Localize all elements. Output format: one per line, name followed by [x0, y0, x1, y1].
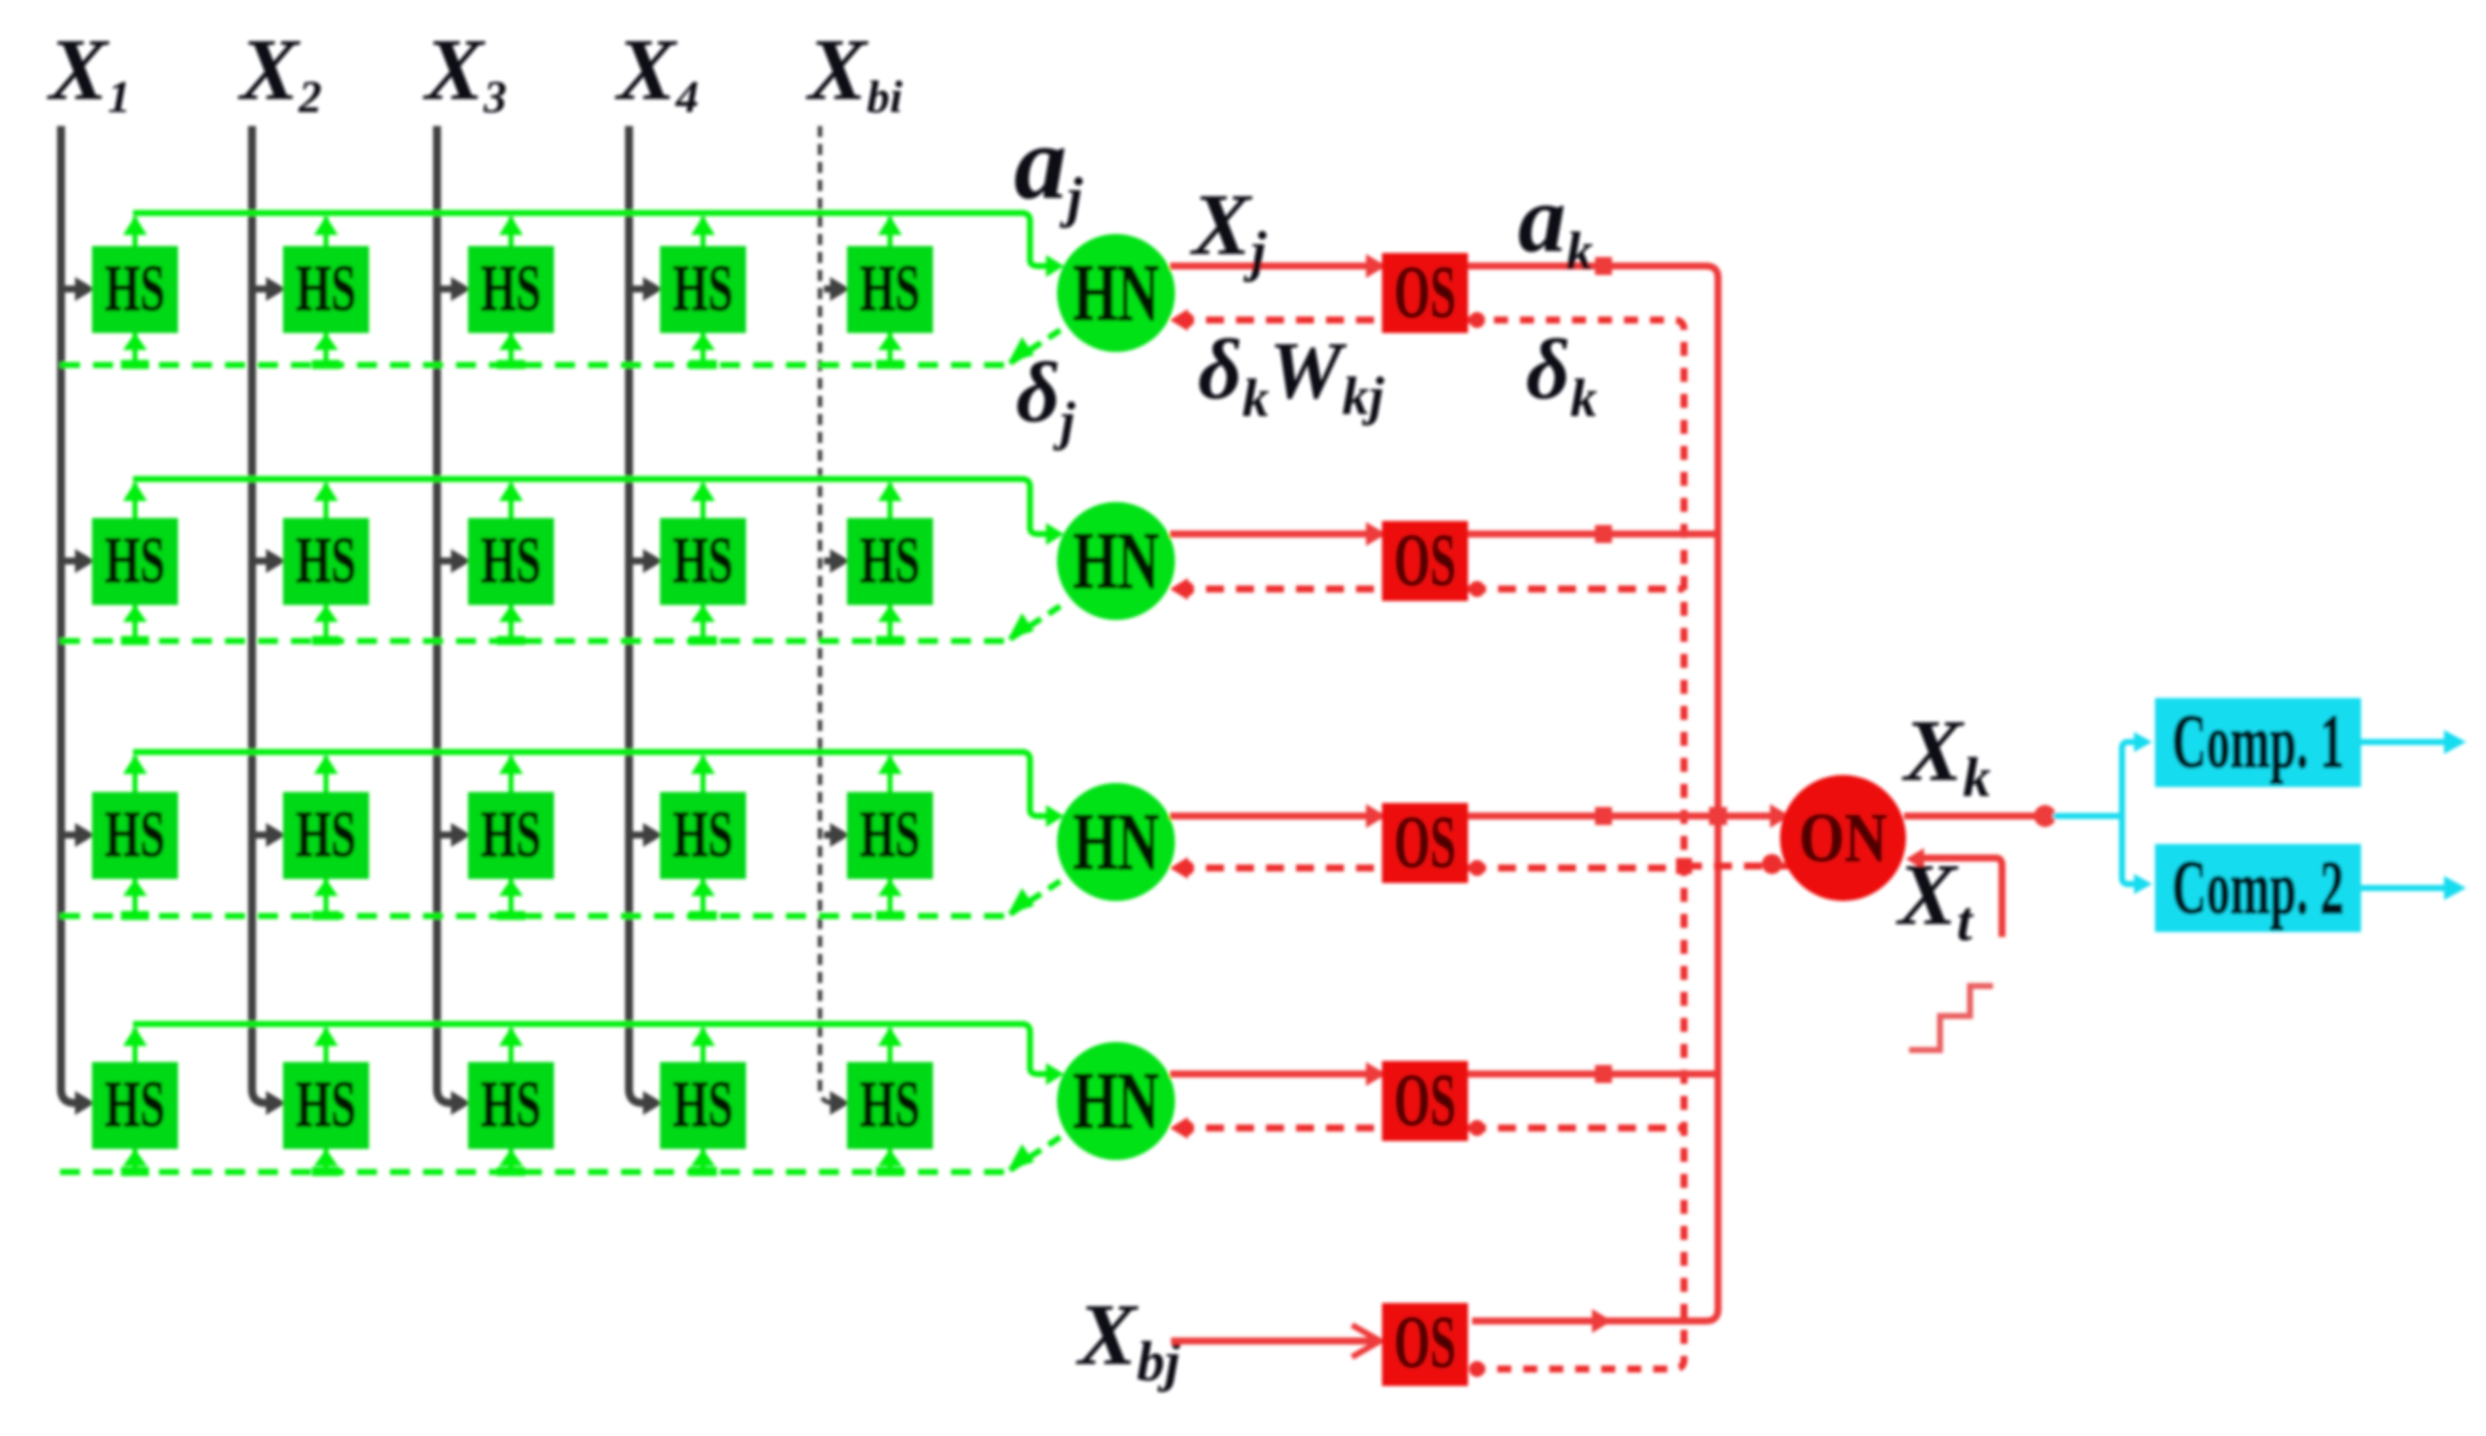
HS box row4 col2 — [283, 1062, 369, 1149]
svg-text:HS: HS — [105, 1068, 165, 1141]
red arrow into OS row4 — [1366, 1062, 1386, 1086]
wire red solid HN row2 to OS — [1170, 531, 1718, 538]
HS box row4 col3 — [468, 1062, 554, 1149]
Comp.2 box — [2155, 844, 2361, 932]
green up-arrow HS row1 col4 to a-line — [701, 217, 706, 248]
green up-arrow from dashed into HS row3 col2 — [324, 877, 329, 916]
svg-text:HS: HS — [860, 252, 920, 325]
green up-arrow from dashed into HS row3 col1 — [133, 877, 138, 916]
green arrow into HN row3 — [1046, 805, 1064, 827]
red arrow into OS row3 — [1366, 804, 1386, 828]
svg-text:ON: ON — [1799, 800, 1887, 877]
op-amp HN neuron row3 — [1057, 783, 1175, 901]
OS box row4 — [1382, 1061, 1468, 1141]
black arrow from X2 into HS row3 col2 — [256, 832, 269, 839]
wire red dashed OS row2 back to HN — [1176, 586, 1382, 593]
wire a_j collect line row3 — [133, 752, 1046, 816]
wire delta_j dashed feedback line row4 — [60, 1169, 1006, 1175]
svg-text:HS: HS — [481, 1068, 541, 1141]
black arrow from X1 into HS row2 col1 — [65, 558, 78, 565]
OS box row3 — [1382, 803, 1468, 883]
green arrow onto dashed line row1 — [1008, 337, 1034, 363]
svg-text:HS: HS — [673, 798, 733, 871]
green up-arrow from dashed into HS row4 col4 — [701, 1147, 706, 1172]
green up-arrow HS row4 col5 to a-line — [888, 1028, 893, 1064]
op-amp HN neuron row2 — [1057, 502, 1175, 620]
wire X_t input elbow into ON — [1916, 858, 2002, 937]
green up-arrow from dashed into HS row4 col1 — [133, 1147, 138, 1172]
black arrow from X2 into HS row2 col2 — [256, 558, 269, 565]
svg-text:Comp. 2: Comp. 2 — [2172, 846, 2344, 930]
green up-arrow from dashed into HS row2 col3 — [509, 603, 514, 641]
red arrow into OS row2 — [1366, 522, 1386, 546]
wire Comp.1 output — [2361, 739, 2448, 745]
green up-arrow HS row1 col1 to a-line — [133, 217, 138, 248]
green dashed stub from HN row3 — [1010, 880, 1062, 914]
green up-arrow HS row2 col4 to a-line — [701, 483, 706, 520]
green up-arrow HS row2 col1 to a-line — [133, 483, 138, 520]
svg-text:HS: HS — [105, 524, 165, 597]
op-amp HN neuron row1 — [1057, 234, 1175, 352]
svg-text:HS: HS — [860, 524, 920, 597]
black arrow from X3 into HS row2 col3 — [441, 558, 454, 565]
wire a_j collect line row4 — [133, 1024, 1046, 1074]
svg-text:OS: OS — [1394, 520, 1456, 602]
svg-text:HS: HS — [296, 798, 356, 871]
black arrow into HS row4 col3 — [451, 1091, 471, 1115]
OS box row5 — [1382, 1303, 1468, 1386]
green up-arrow from dashed into HS row1 col2 — [324, 331, 329, 365]
HS box row2 col1 — [92, 518, 178, 605]
HS box row1 col1 — [92, 246, 178, 333]
HS box row3 col3 — [468, 792, 554, 879]
wire input line X2 vertical — [252, 126, 268, 1103]
wire input line X1 vertical — [61, 126, 77, 1103]
svg-text:HN: HN — [1073, 796, 1159, 887]
svg-text:OS: OS — [1394, 1302, 1456, 1384]
green up-arrow from dashed into HS row2 col5 — [888, 603, 893, 641]
green up-arrow HS row2 col2 to a-line — [324, 483, 329, 520]
svg-text:HS: HS — [481, 524, 541, 597]
black arrow into HS row4 col1 — [75, 1091, 95, 1115]
wire red dashed OS row4 to dashed bus — [1468, 1125, 1684, 1132]
svg-text:HS: HS — [105, 252, 165, 325]
red junction marker row2 — [1595, 525, 1612, 543]
svg-text:OS: OS — [1394, 252, 1456, 334]
OS box row1 — [1382, 253, 1468, 333]
wire red dashed OS row3 back to HN — [1176, 865, 1382, 872]
svg-text:HN: HN — [1073, 515, 1159, 606]
green up-arrow from dashed into HS row2 col1 — [133, 603, 138, 641]
svg-text:HS: HS — [673, 524, 733, 597]
green up-arrow HS row3 col2 to a-line — [324, 756, 329, 794]
svg-text:HS: HS — [481, 252, 541, 325]
green up-arrow HS row2 col5 to a-line — [888, 483, 893, 520]
black arrow from X2 into HS row1 col2 — [256, 286, 269, 293]
wire input line Xbi vertical — [820, 126, 836, 1103]
wire solid bus to ON — [1718, 813, 1786, 820]
green up-arrow from dashed into HS row2 col4 — [701, 603, 706, 641]
svg-text:OS: OS — [1394, 802, 1456, 884]
green up-arrow HS row4 col2 to a-line — [324, 1028, 329, 1064]
op-amp HN neuron row4 — [1057, 1042, 1175, 1160]
HS box row4 col5 — [847, 1062, 933, 1149]
wire cyan from X_k node to splitter — [2053, 813, 2122, 819]
step function symbol — [1909, 986, 1993, 1050]
neuron ON output node — [1780, 775, 1906, 901]
green up-arrow from dashed into HS row4 col5 — [888, 1147, 893, 1172]
green arrow into HN row4 — [1046, 1063, 1064, 1085]
wire red dashed OS row1 back to HN — [1176, 317, 1382, 324]
wire input line X3 vertical — [437, 126, 453, 1103]
HS box row2 col3 — [468, 518, 554, 605]
svg-text:HS: HS — [673, 1068, 733, 1141]
wire red dashed OS row3 to dashed bus — [1468, 865, 1684, 872]
HS box row2 col2 — [283, 518, 369, 605]
green up-arrow from dashed into HS row1 col4 — [701, 331, 706, 365]
green up-arrow from dashed into HS row4 col3 — [509, 1147, 514, 1172]
green up-arrow HS row1 col2 to a-line — [324, 217, 329, 248]
black arrow from X3 into HS row1 col3 — [441, 286, 454, 293]
green up-arrow from dashed into HS row1 col1 — [133, 331, 138, 365]
black arrow from X4 into HS row3 col4 — [633, 832, 646, 839]
wire dashed delta_k from ON to dashed bus — [1684, 863, 1788, 870]
HS box row4 col1 — [92, 1062, 178, 1149]
HS box row2 col4 — [660, 518, 746, 605]
green up-arrow from dashed into HS row3 col4 — [701, 877, 706, 916]
wire red solid HN row4 to OS — [1170, 1071, 1718, 1078]
green arrow onto dashed line row3 — [1008, 888, 1034, 914]
svg-text:HS: HS — [860, 798, 920, 871]
svg-text:HS: HS — [296, 1068, 356, 1141]
svg-text:HS: HS — [481, 798, 541, 871]
green up-arrow HS row4 col4 to a-line — [701, 1028, 706, 1064]
HS box row1 col4 — [660, 246, 746, 333]
HS box row3 col4 — [660, 792, 746, 879]
red junction marker row4 — [1595, 1065, 1612, 1083]
red junction marker row1 — [1595, 257, 1612, 275]
black arrow into HS row4 col2 — [266, 1091, 286, 1115]
svg-text:OS: OS — [1394, 1060, 1456, 1142]
wire X_k output from ON — [1904, 813, 2044, 820]
green up-arrow HS row3 col5 to a-line — [888, 756, 893, 794]
red junction marker row3 — [1595, 807, 1612, 825]
green up-arrow HS row3 col1 to a-line — [133, 756, 138, 794]
green up-arrow HS row4 col3 to a-line — [509, 1028, 514, 1064]
svg-text:HN: HN — [1073, 1055, 1159, 1146]
svg-text:HS: HS — [296, 524, 356, 597]
HS box row3 col5 — [847, 792, 933, 879]
red arrow into OS row1 — [1366, 254, 1386, 278]
green arrow into HN row1 — [1046, 255, 1064, 277]
green up-arrow HS row3 col4 to a-line — [701, 756, 706, 794]
HS box row2 col5 — [847, 518, 933, 605]
svg-text:Comp. 1: Comp. 1 — [2172, 700, 2344, 784]
wire red solid HN row3 to OS — [1170, 813, 1718, 820]
green up-arrow HS row2 col3 to a-line — [509, 483, 514, 520]
green dashed stub from HN row2 — [1010, 605, 1062, 639]
wire cyan splitter bracket — [2122, 742, 2140, 884]
red arrow on OS row5 output — [1592, 1309, 1612, 1333]
black arrow from X4 into HS row2 col4 — [633, 558, 646, 565]
green up-arrow from dashed into HS row3 col3 — [509, 877, 514, 916]
HS box row1 col5 — [847, 246, 933, 333]
green up-arrow from dashed into HS row1 col3 — [509, 331, 514, 365]
svg-text:HS: HS — [860, 1068, 920, 1141]
green up-arrow from dashed into HS row1 col5 — [888, 331, 893, 365]
green arrow onto dashed line row2 — [1008, 613, 1034, 639]
Comp.1 box — [2155, 698, 2361, 787]
OS box row2 — [1382, 521, 1468, 601]
green up-arrow from dashed into HS row2 col2 — [324, 603, 329, 641]
wire red dashed OS row2 to dashed bus — [1468, 586, 1684, 593]
black arrow from Xbi into HS row2 col5 — [824, 558, 833, 565]
HS box row1 col3 — [468, 246, 554, 333]
green up-arrow HS row1 col3 to a-line — [509, 217, 514, 248]
svg-text:HN: HN — [1073, 247, 1159, 338]
black arrow from Xbi into HS row3 col5 — [824, 832, 833, 839]
HS box row4 col4 — [660, 1062, 746, 1149]
green dashed stub from HN row1 — [1010, 329, 1062, 363]
black arrow from X1 into HS row3 col1 — [65, 832, 78, 839]
black arrow from X1 into HS row1 col1 — [65, 286, 78, 293]
green dashed stub from HN row4 — [1010, 1136, 1062, 1170]
green up-arrow HS row1 col5 to a-line — [888, 217, 893, 248]
black arrow from X4 into HS row1 col4 — [633, 286, 646, 293]
wire input line X4 vertical — [629, 126, 645, 1103]
green arrow into HN row2 — [1046, 523, 1064, 545]
wire delta_j dashed feedback line row1 — [60, 362, 1006, 368]
wire delta_j dashed feedback line row3 — [60, 913, 1006, 919]
wire a_j collect line row1 — [133, 213, 1046, 266]
wire red dashed OS row1 to dashed bus — [1468, 320, 1684, 1369]
wire red dashed OS row4 back to HN — [1176, 1125, 1382, 1132]
wire a_j collect line row2 — [133, 479, 1046, 534]
svg-text:HS: HS — [673, 252, 733, 325]
green arrow onto dashed line row4 — [1008, 1144, 1034, 1170]
wire red solid HN row1 to OS — [1170, 266, 1718, 1321]
svg-text:HS: HS — [105, 798, 165, 871]
wire delta_j dashed feedback line row2 — [60, 638, 1006, 644]
green up-arrow from dashed into HS row4 col2 — [324, 1147, 329, 1172]
HS box row3 col2 — [283, 792, 369, 879]
black arrow into HS row4 col4 — [643, 1091, 663, 1115]
wire X_bj into OS row5 — [1171, 1338, 1376, 1345]
svg-text:HS: HS — [296, 252, 356, 325]
HS box row1 col2 — [283, 246, 369, 333]
black arrow from Xbi into HS row1 col5 — [824, 286, 833, 293]
black arrow from X3 into HS row3 col3 — [441, 832, 454, 839]
HS box row3 col1 — [92, 792, 178, 879]
green up-arrow HS row3 col3 to a-line — [509, 756, 514, 794]
wire Comp.2 output — [2361, 885, 2448, 891]
black arrow into HS row4 col5 — [830, 1091, 850, 1115]
green up-arrow from dashed into HS row3 col5 — [888, 877, 893, 916]
green up-arrow HS row4 col1 to a-line — [133, 1028, 138, 1064]
